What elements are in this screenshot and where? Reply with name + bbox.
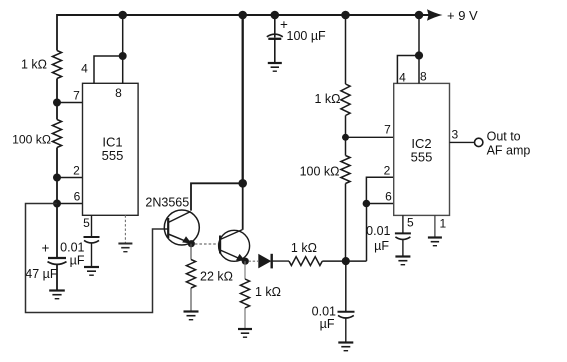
resistor R 1k horizontal bbox=[289, 257, 322, 266]
node pin7 left bbox=[53, 99, 61, 107]
resistor R 100k left bbox=[52, 120, 61, 148]
svg-text:1 kΩ: 1 kΩ bbox=[21, 58, 47, 72]
wire 1k to pin6 riser bbox=[322, 260, 366, 262]
svg-text:1 kΩ: 1 kΩ bbox=[291, 241, 317, 255]
node top rail / right resistor branch bbox=[341, 11, 350, 20]
svg-text:7: 7 bbox=[73, 89, 80, 103]
wire to 47uF bbox=[56, 204, 58, 258]
wire 100k down to timing node bbox=[345, 184, 347, 262]
svg-text:µF: µF bbox=[374, 239, 389, 253]
resistor R 100k right bbox=[341, 156, 350, 184]
svg-text:100 µF: 100 µF bbox=[287, 29, 327, 43]
node pin4/pin8 IC2 bbox=[415, 51, 423, 59]
wire node to 0.01uF bbox=[345, 261, 347, 311]
wire Q1 emitter to Q2 base bbox=[195, 243, 220, 245]
svg-text:0.01: 0.01 bbox=[366, 224, 390, 238]
wire Q1 emitter to 22k bbox=[190, 244, 192, 260]
svg-text:7: 7 bbox=[384, 123, 391, 137]
svg-text:µF: µF bbox=[320, 317, 335, 331]
wire pin 3 IC2 bbox=[450, 141, 475, 143]
wire pin 4 IC2 bbox=[397, 56, 419, 84]
node pin2 left bbox=[53, 174, 61, 182]
svg-text:6: 6 bbox=[385, 190, 392, 204]
ground 1k vertical bbox=[238, 328, 252, 330]
svg-text:22 kΩ: 22 kΩ bbox=[200, 270, 233, 284]
wire node to Q1 collector bbox=[191, 183, 243, 210]
wire 100k to pin2 node bbox=[56, 148, 58, 178]
svg-text:3: 3 bbox=[452, 128, 459, 142]
svg-text:2: 2 bbox=[73, 164, 80, 178]
svg-text:8: 8 bbox=[115, 86, 122, 100]
svg-text:4: 4 bbox=[399, 71, 406, 85]
svg-text:2: 2 bbox=[384, 164, 391, 178]
node top rail / right pin8 branch bbox=[415, 11, 424, 20]
svg-text:5: 5 bbox=[83, 216, 90, 230]
wire Q2 emitter to diode bbox=[249, 260, 259, 262]
svg-text:1 kΩ: 1 kΩ bbox=[314, 92, 340, 106]
terminal output circle bbox=[475, 138, 483, 146]
svg-text:6: 6 bbox=[74, 190, 81, 204]
+9V arrow bbox=[427, 9, 443, 21]
svg-text:Out to: Out to bbox=[487, 130, 521, 144]
svg-text:5: 5 bbox=[407, 216, 414, 230]
wire to 100k right bbox=[345, 137, 347, 155]
svg-text:+: + bbox=[42, 241, 50, 256]
wire 100uF from rail bbox=[274, 15, 276, 38]
wire pin 5 IC2 bbox=[402, 215, 404, 232]
wire to 100k bbox=[56, 103, 58, 120]
ground 22k bbox=[184, 310, 199, 312]
wire 1k to pin7 node bbox=[345, 116, 347, 138]
ground IC2 pin1 bbox=[428, 236, 442, 238]
ground 100uF bbox=[268, 62, 282, 64]
wire center +9V drop bbox=[242, 15, 244, 183]
diode D1 bbox=[258, 254, 271, 269]
ground IC1 pin5 cap bbox=[84, 266, 99, 268]
capacitor C 100uF bbox=[267, 34, 283, 37]
svg-text:2N3565: 2N3565 bbox=[145, 196, 189, 210]
wire Q2 collector bbox=[242, 183, 244, 230]
ground bottom cap bbox=[338, 341, 353, 343]
capacitor C 47uF bbox=[48, 257, 66, 259]
wire pin 7 IC1 bbox=[57, 102, 83, 104]
svg-text:0.01: 0.01 bbox=[60, 241, 84, 255]
wire pin 8 IC1 bbox=[122, 15, 124, 83]
ground 47uF bbox=[49, 289, 65, 291]
svg-text:1: 1 bbox=[440, 217, 447, 231]
svg-text:µF: µF bbox=[70, 254, 85, 268]
wire pin2 node to pin6 node bbox=[56, 178, 58, 204]
wire pin 4 IC1 bbox=[94, 56, 123, 83]
wire 1k to pin7 node bbox=[56, 79, 58, 103]
node pin4/pin8 IC1 bbox=[119, 52, 127, 60]
wire 22k to ground bbox=[190, 288, 192, 311]
capacitor C 0.01uF at IC2 pin5 bbox=[395, 232, 411, 234]
wire 100uF to ground bbox=[274, 39, 276, 63]
svg-text:100 kΩ: 100 kΩ bbox=[12, 133, 51, 147]
resistor R 1k left bbox=[52, 51, 61, 79]
resistor R 22k bbox=[186, 260, 195, 289]
svg-text:4: 4 bbox=[81, 62, 88, 76]
wire Q2 emitter to 1k vertical bbox=[244, 261, 246, 279]
wire pin 8 IC2 bbox=[418, 15, 420, 83]
op-amp/timer IC2 555 box bbox=[394, 83, 450, 215]
op-amp/timer IC1 555 box bbox=[83, 83, 139, 215]
transistor Q2 bbox=[219, 230, 250, 261]
wire 1k to ground bbox=[244, 308, 246, 329]
svg-text:47 µF: 47 µF bbox=[25, 267, 58, 281]
capacitor C 0.01uF bottom bbox=[338, 311, 355, 313]
wire pin 7 IC2 bbox=[346, 136, 394, 138]
svg-text:100 kΩ: 100 kΩ bbox=[300, 165, 340, 179]
svg-text:1 kΩ: 1 kΩ bbox=[255, 285, 281, 299]
wire left branch top bbox=[56, 14, 58, 51]
node pin7 right bbox=[342, 134, 349, 141]
wire diode to 1k bbox=[273, 260, 290, 262]
wire pin 2 IC2 bbox=[366, 177, 393, 203]
wire riser to pin6 node bbox=[366, 204, 368, 262]
node top rail / center branch bbox=[238, 11, 247, 20]
ground IC1 pin1 bbox=[118, 243, 132, 245]
wire pin 6 IC2 bbox=[366, 203, 393, 205]
wire cap to ground bbox=[345, 319, 347, 343]
wire cap to ground bbox=[402, 240, 404, 257]
svg-text:555: 555 bbox=[102, 148, 124, 163]
node collectors junction bbox=[238, 179, 247, 188]
svg-text:+ 9 V: + 9 V bbox=[447, 8, 478, 23]
svg-text:AF amp: AF amp bbox=[487, 144, 531, 158]
node top rail / 100uF branch bbox=[271, 11, 280, 20]
svg-text:8: 8 bbox=[420, 70, 427, 84]
transistor Q1 2N3565 bbox=[164, 210, 199, 245]
node Q2 emitter bbox=[242, 258, 249, 265]
resistor R 1k vertical bbox=[240, 279, 249, 308]
resistor R 1k right bbox=[341, 84, 350, 116]
node pin6 left bbox=[53, 200, 61, 208]
node Q1 emitter bbox=[188, 240, 195, 247]
wire pin 1 IC1 bbox=[124, 215, 126, 243]
wire right branch top bbox=[345, 14, 347, 84]
wire pin 2 IC1 bbox=[57, 177, 83, 179]
wire +9V top rail bbox=[57, 14, 430, 16]
wire pin 1 IC2 bbox=[434, 215, 436, 237]
node top rail / left pin8 branch bbox=[118, 11, 127, 20]
wire cap to ground bbox=[91, 243, 93, 267]
node pin6 IC2 bbox=[363, 200, 371, 208]
wire pin 6 IC1 bbox=[57, 203, 83, 205]
node timing junction right bbox=[342, 257, 350, 265]
ground IC2 pin5 cap bbox=[395, 255, 410, 257]
wire pin 5 IC1 bbox=[91, 215, 93, 236]
svg-text:555: 555 bbox=[411, 150, 433, 165]
wire feedback pin6 to Q1 base bbox=[26, 204, 168, 313]
capacitor C 0.01uF at IC1 pin5 bbox=[84, 236, 100, 238]
wire 47uF to ground bbox=[56, 265, 58, 291]
